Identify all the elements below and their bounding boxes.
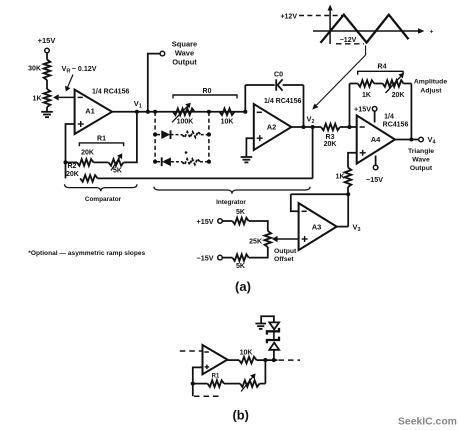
wire A2 feedback top (left segment) bbox=[245, 84, 274, 86]
svg-text:1/4: 1/4 bbox=[384, 113, 394, 120]
wire (b) feedback right down bbox=[264, 360, 266, 384]
-15V terminal (A4) bbox=[373, 165, 378, 170]
ground (A2 plus input) bbox=[241, 156, 253, 158]
R1 bracket bbox=[79, 143, 123, 146]
diode (optional row1, pointing right) bbox=[161, 130, 170, 139]
optional row2 dashed resistor bbox=[171, 161, 182, 163]
resistor 5K (top) bbox=[232, 218, 248, 225]
svg-text:Integrator: Integrator bbox=[216, 199, 246, 206]
svg-text:*Optional — asymmetric ramp sl: *Optional — asymmetric ramp slopes bbox=[28, 250, 145, 257]
svg-text:25K: 25K bbox=[249, 238, 262, 245]
svg-text:R0: R0 bbox=[203, 88, 212, 95]
wire +15V to 5K bbox=[222, 220, 232, 222]
A1 plus input symbol bbox=[78, 123, 84, 125]
op-amp (b) bbox=[203, 345, 228, 374]
Integrator brace bbox=[154, 187, 310, 194]
svg-text:RC4156: RC4156 bbox=[383, 122, 409, 129]
svg-text:20K: 20K bbox=[324, 141, 337, 148]
A4 plus input symbol bbox=[360, 152, 366, 154]
svg-text:V1: V1 bbox=[134, 99, 142, 110]
stray dash mark in optional box bbox=[185, 151, 188, 154]
(b) op-amp plus symbol bbox=[205, 366, 210, 368]
svg-text:1/4 RC4156: 1/4 RC4156 bbox=[92, 88, 129, 95]
wire R4 feedback up bbox=[349, 84, 351, 128]
wire V2 node down to R2 wire bbox=[312, 127, 314, 178]
svg-text:Output: Output bbox=[410, 165, 433, 172]
wire A2 plus to ground bbox=[246, 138, 253, 157]
wire A4 output to V4 terminal bbox=[395, 139, 419, 141]
svg-text:R2: R2 bbox=[68, 163, 77, 170]
svg-text:VR: VR bbox=[62, 64, 71, 75]
node dot V3 top junction bbox=[346, 192, 350, 196]
node dot A2 inverting input bbox=[243, 110, 247, 114]
svg-text:R1: R1 bbox=[97, 135, 106, 142]
dashed vertical (right) of optional network bbox=[208, 112, 210, 162]
wire A3 feedback top bbox=[291, 193, 348, 195]
wire A1 output to A2 (main line) bbox=[112, 111, 245, 113]
svg-text:SeekIC.com: SeekIC.com bbox=[398, 417, 457, 428]
resistor 20K (R1 fixed part) bbox=[77, 159, 94, 166]
wire A2 output to R3 bbox=[291, 126, 321, 128]
wire 1K to ground bbox=[46, 107, 48, 112]
svg-text:10K: 10K bbox=[240, 350, 253, 357]
svg-text:A4: A4 bbox=[371, 135, 381, 144]
square wave output terminal bbox=[160, 51, 165, 56]
100K pot arrow bbox=[172, 106, 187, 122]
resistor R3 20K bbox=[321, 124, 340, 131]
svg-text:20K: 20K bbox=[81, 150, 94, 157]
node dot 100K/10K junction bbox=[207, 110, 211, 114]
node dot A4 output bbox=[409, 137, 413, 141]
svg-text:1K: 1K bbox=[336, 174, 345, 181]
optional row2 right dot bbox=[207, 160, 211, 164]
svg-text:A3: A3 bbox=[312, 223, 322, 232]
resistor R2 20K bbox=[80, 175, 97, 182]
wire R2 to V2 node (hysteresis feedback) bbox=[98, 177, 313, 179]
wire 20K to 5K pot bbox=[94, 161, 109, 163]
svg-text:30K: 30K bbox=[28, 66, 41, 73]
wire +15V to 30K bbox=[46, 53, 48, 60]
svg-text:−15V: −15V bbox=[366, 175, 383, 184]
svg-text:Square: Square bbox=[172, 40, 197, 49]
svg-text:Amplitude: Amplitude bbox=[414, 79, 447, 86]
wire 5K to 25K pot bbox=[249, 221, 268, 231]
wiper arrow into 1K pot bbox=[59, 96, 75, 98]
svg-text:1/4 RC4156: 1/4 RC4156 bbox=[264, 98, 301, 105]
wire 1K to V3 node bbox=[347, 187, 349, 194]
wire -15V to 5K bbox=[222, 257, 232, 259]
wire V1 down to R1 feedback bbox=[124, 112, 137, 163]
op-amp A3 bbox=[299, 203, 337, 250]
wire between zeners bbox=[273, 331, 275, 340]
wire R4 row bbox=[350, 83, 358, 85]
svg-text:−15V: −15V bbox=[197, 254, 214, 263]
resistor 1K (R4 fixed) bbox=[358, 80, 374, 87]
node dot A1 plus feedback bbox=[63, 160, 67, 164]
resistor R1 (b) bbox=[208, 380, 225, 387]
svg-text:100K: 100K bbox=[177, 119, 194, 126]
svg-text:20K: 20K bbox=[66, 171, 79, 178]
wire A2 feedback down to output bbox=[303, 85, 305, 127]
op-amp A4 bbox=[357, 115, 395, 163]
svg-text:− 0.12V: − 0.12V bbox=[72, 65, 97, 73]
svg-text:+15V: +15V bbox=[197, 217, 214, 226]
wire R3 to A4 bbox=[340, 126, 357, 128]
svg-text:+15V: +15V bbox=[354, 105, 371, 114]
20K pot arrow (R4) bbox=[386, 77, 401, 94]
svg-text:5K: 5K bbox=[236, 263, 245, 270]
svg-text:Output: Output bbox=[274, 248, 297, 255]
dashed output line (b) bbox=[279, 359, 301, 361]
wire A3 feedback left down bbox=[291, 194, 299, 211]
waveform graph vertical axis bbox=[329, 11, 331, 45]
svg-text:+12V: +12V bbox=[280, 13, 297, 20]
wire A3 output to V3 bbox=[337, 226, 349, 228]
svg-text:+: + bbox=[430, 28, 434, 35]
potentiometer 20K (R4 variable) bbox=[383, 80, 404, 87]
capacitor C0 bbox=[275, 79, 277, 90]
svg-text:R3: R3 bbox=[326, 134, 335, 141]
svg-text:R1: R1 bbox=[212, 374, 220, 380]
diode (optional row2, pointing left) bbox=[162, 157, 171, 166]
svg-text:1K: 1K bbox=[33, 96, 42, 103]
A3 plus input symbol bbox=[302, 238, 308, 240]
svg-text:(b): (b) bbox=[233, 408, 249, 423]
optional row2 left dot bbox=[153, 160, 157, 164]
triangle waveform trace bbox=[321, 15, 409, 43]
-12V level dashed line bbox=[336, 43, 364, 45]
node dot (b) feedback left bbox=[191, 382, 195, 386]
A2 minus input symbol bbox=[257, 111, 262, 113]
A3 minus input symbol bbox=[302, 210, 307, 212]
dashed vertical (left) of optional network bbox=[154, 112, 156, 162]
wire (b) plus input down bbox=[193, 367, 203, 396]
waveform graph horizontal axis bbox=[313, 30, 418, 32]
wire A1 plus input to feedback node bbox=[66, 124, 75, 178]
svg-text:Output: Output bbox=[172, 58, 197, 67]
+15V terminal (offset) bbox=[218, 219, 223, 224]
wire zener chain top bbox=[261, 316, 274, 323]
5K pot arrow bbox=[111, 158, 120, 171]
dashed input line (b) bbox=[180, 350, 202, 352]
wire V3 node down to A3 output bbox=[347, 194, 349, 226]
svg-text:5K: 5K bbox=[236, 209, 245, 216]
node dot A2 feedback junction bbox=[301, 125, 305, 129]
node dot left dashed tap bbox=[153, 110, 157, 114]
dashed stub below (b) plus input bbox=[194, 395, 219, 397]
leader arrow from waveform to node V2 bbox=[365, 46, 367, 56]
(b) op-amp minus symbol bbox=[204, 351, 208, 353]
optional row1 right dot bbox=[207, 133, 211, 137]
-15V terminal (offset) bbox=[218, 255, 223, 260]
node dot V2 bbox=[311, 125, 315, 129]
svg-text:20K: 20K bbox=[392, 92, 405, 99]
svg-text:5K: 5K bbox=[113, 168, 122, 175]
svg-text:Wave: Wave bbox=[175, 49, 194, 58]
wire R4 down to A4 output bbox=[410, 84, 412, 140]
wire bottom 5K to 25K pot bbox=[249, 247, 268, 258]
resistor 1K (A4 plus to V3) bbox=[345, 168, 352, 188]
wire (b) output to 10K bbox=[227, 359, 239, 361]
resistor 5K (bottom) bbox=[232, 254, 248, 261]
optional row1 dash to diode bbox=[157, 134, 161, 136]
zener diode D1 (cathode down) bbox=[269, 322, 279, 329]
node dot (b) output bbox=[263, 358, 267, 362]
ground (b) bbox=[255, 323, 266, 325]
op-amp A1 bbox=[75, 90, 112, 134]
svg-text:A2: A2 bbox=[267, 123, 277, 132]
resistor 10K (b) bbox=[239, 357, 257, 364]
potentiometer 100K bbox=[173, 109, 195, 116]
svg-text:V2: V2 bbox=[307, 115, 315, 126]
arrow from VR label to wiper bbox=[68, 75, 73, 87]
svg-text:(a): (a) bbox=[235, 279, 251, 294]
svg-text:C0: C0 bbox=[274, 71, 283, 78]
zener diode D2 (cathode up) bbox=[267, 337, 279, 344]
wire +15V to A4 bbox=[374, 111, 376, 123]
node dot R4 feedback tap bbox=[347, 125, 351, 129]
wire R1 row (b) bbox=[193, 383, 208, 385]
svg-text:−12V: −12V bbox=[340, 37, 357, 44]
wire A2 feedback top (right segment) bbox=[283, 84, 304, 86]
potentiometer 1K bbox=[44, 89, 51, 107]
wire A4 to -15V bbox=[375, 156, 377, 166]
resistor 10K bbox=[220, 109, 235, 116]
svg-text:A1: A1 bbox=[85, 106, 95, 115]
resistor 30K bbox=[44, 60, 51, 81]
svg-text:R4: R4 bbox=[378, 64, 387, 71]
(b) pot arrow bbox=[241, 377, 252, 391]
op-amp A2 bbox=[254, 104, 292, 150]
+15V terminal (bias divider) bbox=[45, 48, 50, 53]
optional row1 dashed resistor bbox=[171, 134, 183, 136]
svg-text:Wave: Wave bbox=[412, 157, 430, 164]
R4 bracket bbox=[358, 71, 403, 74]
potentiometer 5K (R1 variable part) bbox=[109, 159, 124, 166]
potentiometer (b) bbox=[240, 380, 260, 387]
wire A2 feedback up bbox=[244, 85, 246, 112]
A1 minus input symbol bbox=[78, 96, 83, 98]
ground (bias divider) bbox=[41, 111, 53, 113]
node dot (b) zener tap bbox=[272, 358, 276, 362]
potentiometer 25K bbox=[265, 231, 272, 247]
wire 30K to 1K bbox=[46, 80, 48, 89]
+15V terminal (A4) bbox=[372, 107, 377, 112]
Comparator brace bbox=[65, 184, 138, 191]
svg-text:+15V: +15V bbox=[38, 36, 56, 45]
A4 minus input symbol bbox=[360, 126, 365, 128]
svg-text:Comparator: Comparator bbox=[85, 196, 122, 203]
+12V level dashed line bbox=[299, 15, 342, 17]
optional row1 left dot bbox=[153, 133, 157, 137]
wire to square wave output terminal bbox=[148, 54, 161, 112]
svg-text:V4: V4 bbox=[428, 135, 436, 146]
node V1 dot bbox=[135, 110, 139, 114]
optional row2 dash to diode bbox=[157, 161, 161, 163]
wire A3 plus input with wiper arrow into 25K bbox=[278, 238, 299, 240]
svg-text:V3: V3 bbox=[353, 223, 361, 234]
svg-text:Adjust: Adjust bbox=[420, 88, 442, 95]
svg-text:1K: 1K bbox=[362, 92, 371, 99]
wire to 20K (R1 row) bbox=[66, 161, 78, 163]
wire zener chain bottom bbox=[273, 350, 275, 361]
R0 bracket bbox=[173, 95, 237, 98]
V4 output terminal bbox=[419, 137, 424, 142]
svg-text:10K: 10K bbox=[221, 119, 234, 126]
wire 10K to output node (b) bbox=[257, 359, 278, 361]
node dot square wave tap bbox=[146, 110, 150, 114]
wire A4 plus to 1K bbox=[348, 153, 357, 168]
svg-text:Offset: Offset bbox=[274, 256, 294, 263]
svg-text:Triangle: Triangle bbox=[408, 148, 434, 155]
A2 plus input symbol bbox=[257, 137, 263, 139]
